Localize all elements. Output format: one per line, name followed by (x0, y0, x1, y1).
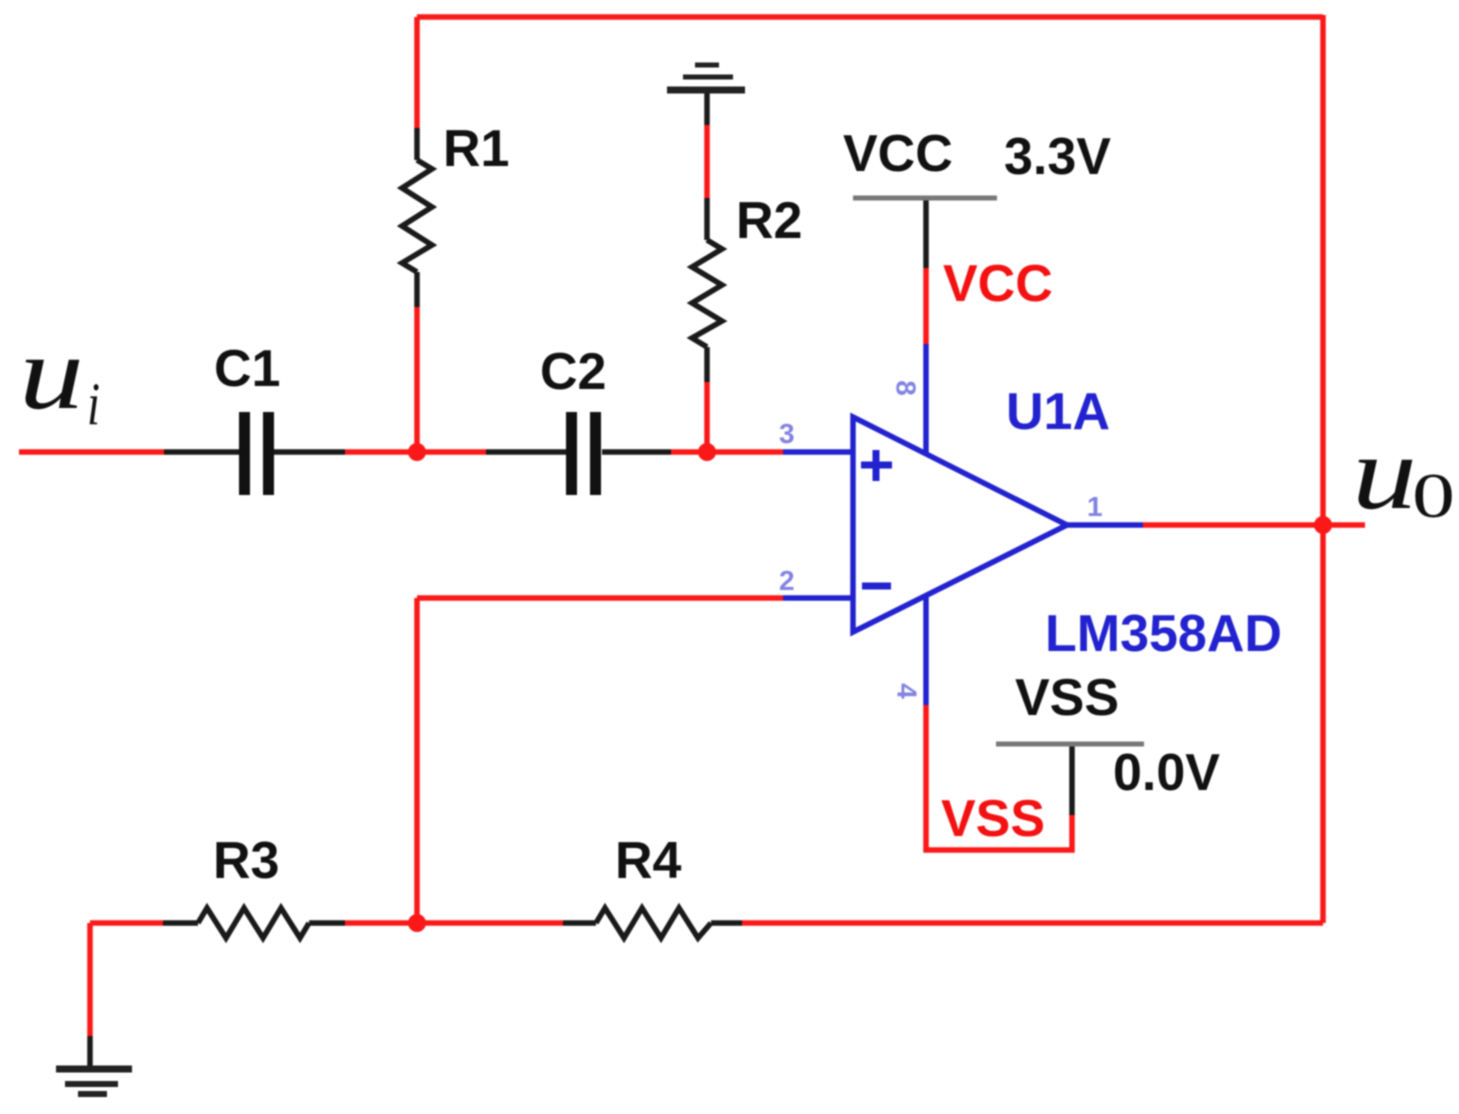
svg-text:0.0V: 0.0V (1113, 744, 1220, 802)
svg-text:i: i (87, 371, 100, 437)
svg-text:C2: C2 (540, 343, 606, 401)
svg-text:VCC: VCC (843, 125, 953, 183)
svg-text:LM358AD: LM358AD (1045, 605, 1282, 663)
svg-text:R4: R4 (615, 832, 682, 890)
svg-text:u: u (19, 314, 84, 431)
svg-text:R2: R2 (736, 192, 802, 250)
svg-text:0: 0 (1412, 461, 1455, 531)
svg-text:2: 2 (779, 565, 795, 596)
svg-text:VSS: VSS (1015, 669, 1119, 727)
svg-text:U1A: U1A (1006, 383, 1110, 441)
svg-text:R1: R1 (443, 120, 509, 178)
svg-text:4: 4 (892, 683, 923, 699)
svg-text:R3: R3 (213, 832, 279, 890)
svg-text:3: 3 (779, 418, 795, 449)
svg-text:C1: C1 (214, 340, 280, 398)
svg-text:VCC: VCC (943, 255, 1053, 313)
svg-text:8: 8 (891, 380, 922, 396)
svg-text:1: 1 (1087, 491, 1103, 522)
svg-text:3.3V: 3.3V (1004, 128, 1111, 186)
svg-text:VSS: VSS (941, 790, 1045, 848)
svg-text:u: u (1352, 414, 1417, 531)
